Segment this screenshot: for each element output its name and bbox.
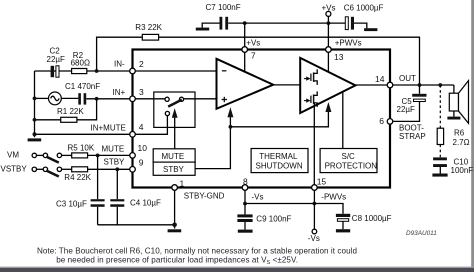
svg-text:R1 22K: R1 22K bbox=[57, 107, 84, 116]
wire R3 to OUT node feedback bbox=[159, 37, 420, 85]
wire STBY control riser bbox=[195, 117, 230, 169]
switch SW1 blade bbox=[46, 157, 59, 163]
node OUT boucherot dot bbox=[438, 83, 442, 87]
svg-text:2.7Ω: 2.7Ω bbox=[453, 138, 470, 147]
wire pin 1 to ground bbox=[174, 188, 176, 229]
pin 15 circle bbox=[312, 185, 318, 191]
wire pin 13 riser bbox=[327, 23, 329, 47]
node -Vs terminal dot bbox=[313, 202, 317, 206]
switch SW2 blade bbox=[46, 171, 59, 177]
wire left input rail bbox=[34, 71, 36, 137]
svg-text:VSTBY: VSTBY bbox=[1, 165, 28, 174]
mute switch box S1 bbox=[154, 92, 195, 127]
svg-text:-Vs: -Vs bbox=[252, 192, 264, 201]
node source rail dot bbox=[33, 97, 37, 101]
svg-text:4: 4 bbox=[139, 122, 144, 132]
arrow STBY to A1 bbox=[227, 107, 233, 117]
capacitor C5 bootstrap bbox=[393, 85, 427, 121]
capacitor C1 bbox=[78, 93, 86, 104]
node OUT feedback dot bbox=[418, 83, 422, 87]
svg-text:STBY: STBY bbox=[163, 165, 185, 174]
node ground junction dot bbox=[172, 223, 177, 228]
wire R3 left vertical bbox=[97, 37, 143, 71]
svg-text:13: 13 bbox=[334, 52, 344, 62]
resistor R4 bbox=[72, 167, 88, 172]
svg-text:C8 1000µF: C8 1000µF bbox=[352, 214, 392, 223]
svg-text:THERMAL: THERMAL bbox=[259, 152, 298, 161]
svg-text:C3 10µF: C3 10µF bbox=[56, 199, 87, 208]
pin 3 circle bbox=[130, 96, 136, 102]
wire OUT line bbox=[393, 84, 454, 86]
ground left input rail bbox=[28, 138, 42, 141]
node C9 dot bbox=[243, 202, 247, 206]
svg-text:C9 100nF: C9 100nF bbox=[256, 214, 291, 223]
transistor M1 upper MOSFET bbox=[304, 69, 317, 85]
svg-text:C2: C2 bbox=[50, 47, 61, 56]
pin 4 circle bbox=[130, 132, 136, 138]
wire speaker drop bbox=[453, 85, 455, 93]
wire pin 3 to mute switch bbox=[135, 98, 165, 100]
transistor M2 lower MOSFET bbox=[304, 91, 317, 107]
pin 14 circle bbox=[387, 82, 393, 88]
ground C9 bbox=[238, 230, 253, 233]
svg-text:IN-: IN- bbox=[114, 60, 125, 69]
node C4 tap dot bbox=[115, 167, 119, 171]
svg-text:MUTE: MUTE bbox=[162, 152, 185, 161]
svg-text:3: 3 bbox=[139, 87, 144, 97]
pin 9 circle bbox=[130, 167, 136, 173]
wire source to rail bbox=[35, 97, 49, 99]
node IN- junction dot bbox=[95, 69, 99, 73]
switch SW1 VM contacts bbox=[32, 153, 62, 157]
label S/C PROTECTION bbox=[325, 152, 378, 171]
wire SW1 to R5 bbox=[62, 154, 72, 156]
svg-text:9: 9 bbox=[139, 157, 144, 167]
wire pin 15 drop bbox=[313, 190, 315, 203]
op-amp A1 input stage bbox=[217, 59, 274, 109]
block STBY bbox=[153, 162, 195, 175]
switch S1 lower contact bbox=[165, 111, 169, 115]
wire A2 output to pin 14 bbox=[355, 84, 387, 86]
op-amp A2 power stage bbox=[300, 58, 355, 113]
svg-text:PROTECTION: PROTECTION bbox=[325, 162, 378, 171]
node IN+MUTE rail dot bbox=[33, 132, 37, 136]
svg-text:6: 6 bbox=[379, 116, 384, 126]
svg-text:STBY: STBY bbox=[104, 157, 126, 166]
resistor R2 bbox=[72, 69, 87, 74]
svg-text:2: 2 bbox=[139, 59, 144, 69]
terminal -Vs supply bbox=[312, 204, 317, 234]
svg-text:SHUTDOWN: SHUTDOWN bbox=[256, 162, 303, 171]
page bottom gray band bbox=[0, 267, 474, 272]
ground C6 bbox=[364, 28, 377, 31]
svg-text:+Vs: +Vs bbox=[246, 39, 260, 48]
wire source to C1 bbox=[61, 97, 78, 99]
svg-text:R4 22K: R4 22K bbox=[64, 173, 91, 182]
switch S1 blade bbox=[168, 100, 182, 107]
wire R1 to rail bbox=[35, 119, 61, 121]
ground speaker bbox=[447, 111, 460, 120]
node Vs C6 dot bbox=[327, 21, 331, 25]
wire IN+MUTE pin 4 bbox=[35, 133, 133, 135]
wire R5 to pin 10 bbox=[88, 154, 133, 156]
wire negative supply rail bbox=[245, 204, 343, 214]
svg-text:R3 22K: R3 22K bbox=[135, 23, 162, 32]
svg-text:1: 1 bbox=[180, 178, 185, 188]
wire pin 8 drop bbox=[244, 190, 246, 203]
svg-text:MUTE: MUTE bbox=[102, 144, 125, 153]
svg-text:680Ω: 680Ω bbox=[71, 59, 90, 68]
pin 6 circle bbox=[387, 119, 393, 125]
switch S1 right contact bbox=[179, 97, 183, 101]
svg-text:R5 10K: R5 10K bbox=[68, 144, 95, 153]
wire boucherot dashed drop bbox=[439, 85, 441, 128]
svg-text:Note: The Boucherot cell R6, C: Note: The Boucherot cell R6, C10, normal… bbox=[37, 247, 357, 256]
capacitor C7 bbox=[202, 17, 228, 30]
block MUTE bbox=[153, 149, 195, 162]
svg-text:100nF: 100nF bbox=[451, 166, 474, 175]
wire pin 4 to switch lower contact bbox=[135, 116, 167, 135]
ground C7 bbox=[196, 28, 209, 31]
label A1 plus input bbox=[222, 97, 227, 102]
svg-text:C1 470nF: C1 470nF bbox=[65, 82, 100, 91]
resistor R1 bbox=[61, 117, 77, 122]
speaker LS1 bbox=[449, 81, 468, 124]
pin 10 circle bbox=[130, 153, 136, 159]
wire C3 C4 ground bus bbox=[98, 224, 175, 226]
pin 8 circle bbox=[242, 185, 248, 191]
pin 1 circle bbox=[172, 185, 178, 191]
node R1 rail dot bbox=[33, 118, 37, 122]
node Vs C7 dot bbox=[243, 21, 247, 25]
wire STBY branch to A2 arrow bbox=[230, 112, 328, 127]
capacitor C3 bbox=[91, 155, 105, 224]
svg-text:7: 7 bbox=[251, 51, 256, 61]
svg-text:22µF: 22µF bbox=[47, 55, 66, 64]
page right edge gray bar bbox=[471, 0, 474, 272]
source V1 sine generator bbox=[49, 92, 62, 105]
svg-text:-Vs: -Vs bbox=[308, 234, 320, 243]
svg-text:+PWVs: +PWVs bbox=[335, 39, 362, 48]
svg-text:+Vs: +Vs bbox=[322, 3, 336, 12]
switch S1 left contact bbox=[165, 97, 169, 101]
svg-text:S/C: S/C bbox=[342, 152, 356, 161]
wire C1 to pin 3 bbox=[86, 98, 132, 100]
wire switch to amp1 non-inverting input bbox=[184, 98, 217, 100]
svg-text:VM: VM bbox=[7, 151, 19, 160]
IC box U1 bbox=[133, 50, 391, 188]
wire M2 to pin 15 bbox=[313, 103, 315, 185]
label A1 minus input bbox=[222, 70, 227, 72]
resistor R5 bbox=[72, 153, 88, 158]
pin 13 circle bbox=[326, 47, 332, 53]
capacitor C4 bbox=[110, 169, 124, 225]
ground STBY-GND bbox=[168, 229, 182, 232]
wire pin 2 to amp1 inverting input bbox=[135, 70, 216, 72]
wire SW2 to R4 bbox=[62, 168, 72, 170]
svg-text:14: 14 bbox=[375, 74, 385, 84]
svg-text:STBY-GND: STBY-GND bbox=[184, 192, 225, 201]
svg-text:STRAP: STRAP bbox=[399, 132, 426, 141]
wire MUTE control arrow bbox=[172, 108, 178, 149]
node C3 tap dot bbox=[96, 154, 100, 158]
wire pin 13 to A2 bbox=[327, 52, 329, 72]
svg-text:10: 10 bbox=[138, 143, 148, 153]
svg-text:D93AU011: D93AU011 bbox=[406, 230, 437, 237]
svg-text:R6: R6 bbox=[454, 129, 465, 138]
capacitor C10 bbox=[433, 157, 447, 173]
switch SW2 VSTBY contacts bbox=[32, 167, 62, 171]
svg-text:C6 1000µF: C6 1000µF bbox=[344, 3, 384, 12]
svg-text:15: 15 bbox=[317, 176, 327, 186]
capacitor C2 bbox=[51, 66, 59, 77]
wire R4 to pin 9 bbox=[88, 168, 133, 170]
capacitor C6 bbox=[328, 17, 366, 30]
ground C8 bbox=[336, 229, 350, 232]
pin 7 circle bbox=[242, 47, 248, 53]
svg-text:C4 10µF: C4 10µF bbox=[130, 198, 161, 207]
block S/C PROTECTION bbox=[320, 149, 377, 173]
block THERMAL SHUTDOWN bbox=[251, 149, 308, 173]
svg-text:22µF: 22µF bbox=[397, 105, 416, 114]
pin 2 circle bbox=[130, 68, 136, 74]
resistor R3 bbox=[142, 34, 158, 40]
wire pin 7 to A1 bbox=[244, 52, 246, 72]
svg-text:OUT: OUT bbox=[399, 74, 416, 83]
svg-text:-PWVs: -PWVs bbox=[321, 192, 346, 201]
ground C10 bbox=[432, 174, 447, 177]
wire R1 right vertical bbox=[77, 99, 97, 120]
svg-text:C7 100nF: C7 100nF bbox=[206, 3, 241, 12]
svg-text:be needed in presence of parti: be needed in presence of particular load… bbox=[56, 256, 298, 266]
wire A2 to SC protection bbox=[342, 92, 344, 149]
label BOOT-STRAP bbox=[399, 124, 426, 141]
terminal +Vs supply bbox=[326, 11, 331, 23]
resistor R6 bbox=[437, 128, 443, 144]
arrow STBY to A2 bbox=[325, 102, 331, 112]
svg-text:8: 8 bbox=[243, 176, 248, 186]
wire pin 7 to Vs rail bbox=[244, 23, 246, 47]
wire Vs rail top bbox=[228, 22, 328, 24]
svg-text:IN+MUTE: IN+MUTE bbox=[91, 124, 126, 133]
wire A1 output to A2 bbox=[273, 84, 300, 86]
capacitor C8 bbox=[336, 214, 350, 229]
wire R6 to C10 dashed bbox=[439, 145, 441, 158]
node IN+ junction dot bbox=[95, 97, 99, 101]
label THERMAL SHUTDOWN bbox=[256, 152, 303, 171]
svg-text:IN+: IN+ bbox=[113, 88, 126, 97]
capacitor C9 bbox=[237, 204, 252, 230]
wire IN- node to pin 2 bbox=[35, 70, 133, 72]
node STBY branch dot bbox=[229, 125, 233, 129]
